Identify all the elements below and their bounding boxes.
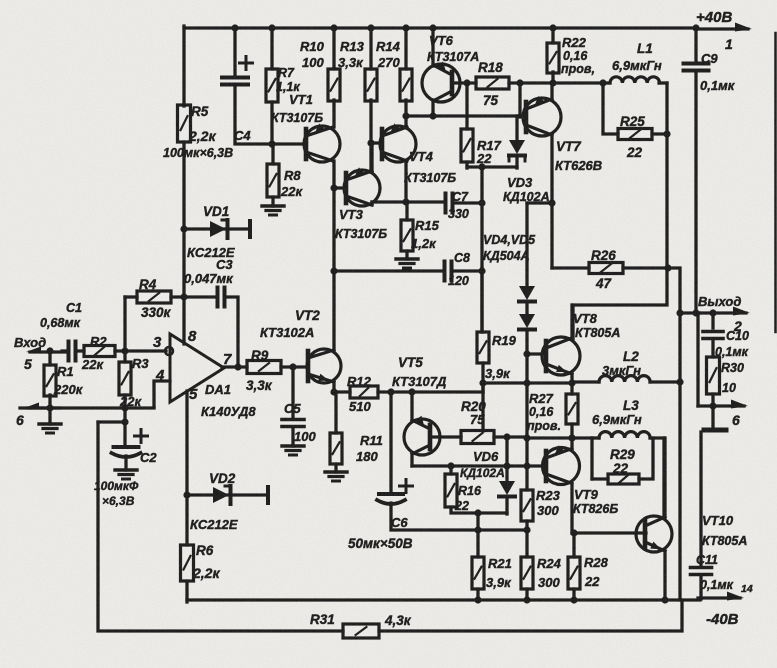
node VT6 collector junction xyxy=(429,112,436,119)
node R25/L1 right junction xyxy=(663,130,670,137)
node feedback junction xyxy=(121,418,128,425)
label pin 8 xyxy=(188,328,197,345)
svg-text:КТ3107Б: КТ3107Б xyxy=(404,171,456,185)
node junction R14 on top rail xyxy=(402,24,409,31)
wire C4 bottom to VT1 base line xyxy=(235,85,306,144)
wire R27 top xyxy=(570,383,573,394)
wire L2 right xyxy=(650,380,680,383)
label R24 value 300 xyxy=(538,575,560,590)
svg-text:22к: 22к xyxy=(280,184,303,199)
resistor R31 xyxy=(343,624,379,638)
svg-text:100мкФ: 100мкФ xyxy=(94,479,139,493)
wire R30 bottom xyxy=(711,394,714,430)
label R8 xyxy=(284,168,301,183)
svg-text:Выход: Выход xyxy=(698,294,741,309)
op-amp DA1 xyxy=(170,334,224,402)
svg-text:3,3к: 3,3к xyxy=(338,55,364,70)
svg-text:VT10: VT10 xyxy=(702,513,734,528)
wire R3 bottom to C2 xyxy=(123,395,126,447)
wire VT7 emitter up xyxy=(550,83,553,100)
wire R25 left drop xyxy=(603,83,618,134)
svg-text:R24: R24 xyxy=(537,556,562,571)
wire bias line to L3 xyxy=(527,436,592,439)
wire op-amp pin 4 xyxy=(154,381,170,407)
wire VT6 collector down xyxy=(431,100,434,116)
ground under R15 xyxy=(396,259,418,268)
label L1 xyxy=(637,41,653,56)
svg-text:300: 300 xyxy=(537,503,559,518)
wire VT7 collector down to R26 xyxy=(550,135,553,268)
label C3 xyxy=(216,257,233,272)
capacitor C8 xyxy=(445,262,452,281)
terminal bar VD1 xyxy=(248,221,252,237)
label R28 xyxy=(584,555,609,570)
label VT2 type КТ3102А xyxy=(260,325,314,340)
svg-text:С4: С4 xyxy=(234,128,251,143)
label VT7 xyxy=(556,139,582,154)
node R16 tap xyxy=(447,462,454,469)
wire R15 bottom xyxy=(405,251,408,259)
diode VD4 xyxy=(519,286,535,302)
svg-text:С2: С2 xyxy=(140,450,157,465)
label R5 value 2,2к xyxy=(188,128,216,144)
resistor R7 xyxy=(266,69,278,102)
svg-text:0,1мк: 0,1мк xyxy=(700,578,734,592)
label R24 xyxy=(537,556,562,571)
label R14 xyxy=(376,39,401,54)
svg-text:VD3: VD3 xyxy=(507,175,533,190)
wire VT5 collector line xyxy=(412,464,527,467)
wire left column top rail to R5 xyxy=(182,26,185,106)
svg-text:VD4,VD5: VD4,VD5 xyxy=(483,233,536,247)
svg-text:С6: С6 xyxy=(391,515,408,530)
label R19 xyxy=(492,333,517,348)
label R20 xyxy=(461,399,486,414)
wire R26 left xyxy=(552,266,589,269)
label C1 value 0,68мк xyxy=(40,316,81,330)
label VT10 type КТ805А xyxy=(702,534,747,548)
node R1 top junction xyxy=(46,347,53,354)
node R21 drop junction xyxy=(474,509,481,516)
node C9 on output line xyxy=(692,309,699,316)
wire R16 top xyxy=(449,466,452,474)
transistor VT1 xyxy=(304,124,340,163)
wire VT10 collector up xyxy=(663,438,666,517)
svg-text:270: 270 xyxy=(377,55,400,70)
label VD1 xyxy=(203,204,229,219)
label R14 value 270 xyxy=(377,55,400,70)
svg-text:КТ3102А: КТ3102А xyxy=(260,325,314,340)
svg-text:1,2к: 1,2к xyxy=(411,236,437,251)
svg-text:R23: R23 xyxy=(536,488,561,503)
label R1 xyxy=(57,364,74,379)
label VD4 VD5 type КД504А xyxy=(483,249,530,263)
svg-text:С9: С9 xyxy=(701,51,718,66)
label R8 value 22к xyxy=(280,184,303,199)
wire C10 to R30 xyxy=(711,339,714,357)
label R26 value 47 xyxy=(595,276,613,291)
svg-text:R7: R7 xyxy=(278,66,295,80)
wire R27 bottom xyxy=(570,424,573,438)
wire L3 left drop xyxy=(590,438,593,479)
label VT1 type КТ3107Б xyxy=(271,111,323,125)
scan artifact right edge xyxy=(774,33,777,332)
wire drop to R20 xyxy=(481,383,484,431)
svg-text:КС212Е: КС212Е xyxy=(187,245,235,260)
wire VT1 collector down to VT3 base and VT2 collector xyxy=(332,161,335,350)
svg-text:КТ3107Б: КТ3107Б xyxy=(271,111,323,125)
label VT3 type КТ3107Б xyxy=(335,227,387,241)
node VD1 anode junction xyxy=(180,225,187,232)
svg-text:47: 47 xyxy=(595,276,613,291)
wire VD3 cathode down xyxy=(515,157,518,168)
label +40В xyxy=(696,9,732,26)
label R27 value пров xyxy=(527,419,561,433)
svg-text:22к: 22к xyxy=(119,394,142,409)
svg-text:330к: 330к xyxy=(141,305,172,320)
wire C10 top xyxy=(711,313,714,328)
wire C9 bottom to output line xyxy=(694,71,697,314)
svg-text:КТ805А: КТ805А xyxy=(575,326,620,340)
transistor VT2 xyxy=(307,349,341,383)
wire R15 top xyxy=(405,202,408,220)
label R9 xyxy=(251,348,269,363)
node junction VT6 emitter on top rail xyxy=(429,24,436,31)
wire C2 bottom xyxy=(124,456,127,470)
wire VT6 emitter up to rail xyxy=(431,28,434,66)
svg-text:2,2к: 2,2к xyxy=(192,565,220,581)
label R17 xyxy=(477,138,502,153)
resistor R20 xyxy=(461,431,494,444)
label C9 value 0,1мк xyxy=(700,78,736,93)
label pin 4 xyxy=(155,367,165,384)
label R11 xyxy=(360,433,383,448)
label R2 value 22к xyxy=(81,357,104,372)
label R17 value 22 xyxy=(476,151,492,166)
label R22 value пров xyxy=(561,62,595,76)
resistor R29 xyxy=(608,474,639,484)
label R13 value 3,3к xyxy=(338,55,364,70)
wire diode chain down to VT9 base column xyxy=(525,383,528,490)
wire VT5 emitter up xyxy=(410,392,413,420)
wire C5 top xyxy=(291,367,294,418)
wire bottom link down to C7 node xyxy=(480,167,483,332)
wire VT3 collector down xyxy=(370,202,373,205)
svg-text:VT5: VT5 xyxy=(398,355,423,370)
wire R24 top xyxy=(525,530,528,557)
label Вход xyxy=(14,335,46,350)
capacitor C5 xyxy=(282,420,304,427)
resistor R14 xyxy=(400,69,412,101)
svg-text:R6: R6 xyxy=(196,543,214,558)
wire R12 right to R20 drop line xyxy=(378,390,483,393)
label R5 xyxy=(191,104,209,119)
label R9 value 3,3к xyxy=(246,378,273,393)
svg-text:КД102А: КД102А xyxy=(460,466,505,480)
node junction R10 on top rail xyxy=(330,24,337,31)
resistor R19 xyxy=(477,332,489,363)
ground under C2 xyxy=(115,470,137,479)
node R28 on rail xyxy=(570,596,577,603)
svg-text:510: 510 xyxy=(349,399,371,414)
svg-text:DA1: DA1 xyxy=(205,382,231,397)
wire VT8 collector up xyxy=(570,305,573,338)
resistor R25 xyxy=(618,129,652,140)
svg-text:R10: R10 xyxy=(300,39,325,54)
wire VD6 cathode xyxy=(505,497,508,514)
svg-text:VD2: VD2 xyxy=(209,471,236,486)
resistor R10 xyxy=(328,69,340,101)
wire C5 bottom xyxy=(291,427,294,446)
svg-text:С8: С8 xyxy=(454,251,470,265)
transistor VT3 xyxy=(344,167,380,206)
svg-text:0,16: 0,16 xyxy=(563,49,588,63)
wire VD2 cathode xyxy=(216,493,266,496)
wire R6 bottom to rail xyxy=(185,581,188,602)
label R22 value 0,16 xyxy=(563,49,588,63)
svg-text:R5: R5 xyxy=(191,104,209,119)
svg-text:КТ826Б: КТ826Б xyxy=(573,502,618,516)
wire common line from C9 column xyxy=(696,313,699,406)
svg-text:R30: R30 xyxy=(721,361,744,375)
resistor R4 xyxy=(137,291,171,303)
wire R21 bottom xyxy=(476,589,479,601)
label VD1 type КС212Е xyxy=(187,245,235,260)
diode VD6 xyxy=(499,481,515,497)
label C8 xyxy=(454,251,470,265)
wire R17 bottom xyxy=(465,162,468,168)
svg-text:R31: R31 xyxy=(310,612,335,627)
svg-text:R1: R1 xyxy=(57,364,74,379)
svg-text:L3: L3 xyxy=(623,398,639,413)
svg-text:С1: С1 xyxy=(66,301,82,315)
label pin 3 xyxy=(153,334,162,351)
svg-text:R29: R29 xyxy=(610,447,635,462)
diode VD2 xyxy=(213,486,231,504)
svg-text:VT3: VT3 xyxy=(339,207,364,222)
node VT8 base tap xyxy=(523,350,530,357)
svg-text:220к: 220к xyxy=(53,382,84,397)
label C7 xyxy=(452,190,469,204)
capacitor C3 xyxy=(218,288,225,307)
node R20 link junction xyxy=(523,434,530,441)
svg-text:0,1мк: 0,1мк xyxy=(700,78,736,93)
svg-text:100: 100 xyxy=(302,55,324,70)
svg-text:5: 5 xyxy=(24,356,32,372)
capacitor C7 xyxy=(446,194,453,213)
label R26 xyxy=(591,248,616,263)
ground under R1 xyxy=(39,424,61,433)
node junction C9 on top rail xyxy=(692,24,699,31)
label R21 xyxy=(488,556,512,571)
wire R14 top xyxy=(404,28,407,69)
label R11 value 180 xyxy=(356,449,378,464)
svg-text:75: 75 xyxy=(483,93,499,108)
svg-text:1: 1 xyxy=(725,36,733,52)
svg-text:14: 14 xyxy=(741,583,753,595)
label R31 value 4,3к xyxy=(384,613,412,628)
resistor R13 xyxy=(365,69,377,101)
wire R13 top xyxy=(369,28,372,69)
wire R13 bottom to VT3 emitter/VT4 base node xyxy=(369,100,372,172)
node VT9 base junction xyxy=(523,462,530,469)
label R7 xyxy=(278,66,295,80)
wire R31 right to rail link xyxy=(379,600,682,631)
svg-text:0,68мк: 0,68мк xyxy=(40,316,81,330)
wire R23 bottom xyxy=(525,521,528,530)
wire common line xyxy=(698,404,712,407)
label L3 value 6,9мкГн xyxy=(592,412,642,427)
label R23 value 300 xyxy=(537,503,559,518)
svg-text:22: 22 xyxy=(584,574,600,589)
terminal +40V arrow pin 1 xyxy=(700,23,752,32)
resistor R6 xyxy=(181,545,194,581)
wire R1 ground stub xyxy=(48,408,51,424)
svg-text:330: 330 xyxy=(448,207,469,221)
node VT1 collector / VT3 base junction xyxy=(330,184,337,191)
svg-text:R15: R15 xyxy=(415,218,440,233)
wire R7 top xyxy=(270,28,273,69)
terminal bar under R30 xyxy=(704,428,726,433)
svg-text:R26: R26 xyxy=(591,248,616,263)
label C10 value 0,1мк xyxy=(715,345,749,359)
label Выход xyxy=(698,294,741,309)
svg-text:R8: R8 xyxy=(284,168,301,183)
label R27 value 0,16 xyxy=(529,405,554,419)
label VD2 type КС212Е xyxy=(190,517,238,532)
svg-text:0,16: 0,16 xyxy=(529,405,554,419)
node VT7 base drop junction xyxy=(516,79,523,86)
label VT9 type КТ826Б xyxy=(573,502,618,516)
label R4 value 330к xyxy=(141,305,172,320)
label R19 value 3,9к xyxy=(485,366,511,381)
label R6 xyxy=(196,543,214,558)
resistor R1 xyxy=(44,365,56,396)
svg-text:R2: R2 xyxy=(90,334,107,349)
node C8/column junction xyxy=(478,267,485,274)
svg-text:120: 120 xyxy=(448,274,469,288)
wire C6 column xyxy=(389,392,392,494)
diode VD1 xyxy=(210,220,228,238)
resistor R15 xyxy=(401,220,413,251)
wire VT4 collector down xyxy=(404,161,407,202)
svg-text:КТ626В: КТ626В xyxy=(555,158,602,173)
wire VT7 base down xyxy=(520,83,526,117)
wire C6 bottom line xyxy=(391,503,527,530)
label R13 xyxy=(340,39,365,54)
wire C11 bottom xyxy=(699,575,702,599)
node C10 tap xyxy=(709,309,716,316)
node junction R7 on top rail xyxy=(268,24,275,31)
diode VD3 xyxy=(509,140,525,161)
capacitor C4 plus sign xyxy=(240,57,253,70)
label R15 xyxy=(415,218,440,233)
capacitor C1 xyxy=(69,342,76,361)
svg-text:6,9мкГн: 6,9мкГн xyxy=(612,58,662,73)
svg-text:3,3к: 3,3к xyxy=(246,378,273,393)
svg-text:R12: R12 xyxy=(347,374,372,389)
ground under C5 xyxy=(282,446,304,455)
svg-text:КТ805А: КТ805А xyxy=(702,534,747,548)
label VT5 xyxy=(398,355,423,370)
wire R14 bottom to VT4 emitter xyxy=(404,100,407,127)
wire VT5 base to R20 xyxy=(430,435,461,438)
wire R17/VD3 bottom link xyxy=(467,165,517,168)
label VT3 xyxy=(339,207,364,222)
label VT8 type КТ805А xyxy=(575,326,620,340)
label R18 value 75 xyxy=(483,93,499,108)
resistor R26 xyxy=(589,263,623,274)
wire C8 right to column xyxy=(452,269,482,272)
node C6 line crossing xyxy=(474,526,481,533)
wire R4 left xyxy=(125,295,137,298)
node R4/C3 junction xyxy=(180,293,187,300)
wire R16 bottom xyxy=(451,507,507,513)
wire R10 top xyxy=(332,28,335,69)
svg-text:R27: R27 xyxy=(529,391,554,406)
wire R2 right to op-amp pin 3 xyxy=(115,349,166,352)
label R10 value 100 xyxy=(302,55,324,70)
label R30 xyxy=(721,361,744,375)
wire R8 top xyxy=(271,144,274,164)
wire VD1 anode xyxy=(184,227,210,230)
wire R4 left column xyxy=(123,297,126,351)
capacitor C4 xyxy=(222,78,248,85)
label VD3 xyxy=(507,175,533,190)
inductor L1 xyxy=(610,77,660,83)
label R25 value 22 xyxy=(626,145,643,160)
svg-text:VT9: VT9 xyxy=(574,487,599,502)
svg-text:VT7: VT7 xyxy=(556,139,582,154)
node C3 on output wire xyxy=(234,363,241,370)
label VT7 type КТ626В xyxy=(555,158,602,173)
svg-text:VD1: VD1 xyxy=(203,204,229,219)
node R3 top junction xyxy=(121,347,128,354)
label R21 value 3,9к xyxy=(486,575,512,590)
svg-text:0,047мк: 0,047мк xyxy=(184,271,234,286)
label R27 xyxy=(529,391,554,406)
label pin 6 lower xyxy=(732,412,740,428)
svg-text:R13: R13 xyxy=(340,39,365,54)
label R28 value 22 xyxy=(584,574,600,589)
wire VT6 base to R18 xyxy=(452,81,476,84)
label R4 xyxy=(139,277,157,292)
node diode chain on output drive line xyxy=(523,379,530,386)
label VT10 xyxy=(702,513,734,528)
wire op-amp pin 5 down to VD2 and R6 xyxy=(185,391,188,545)
wire VT5 collector down xyxy=(410,454,413,466)
label C6 xyxy=(391,515,408,530)
wire VD5 cathode down xyxy=(525,330,528,384)
svg-text:22: 22 xyxy=(454,499,469,513)
capacitor C6 plus sign xyxy=(400,480,413,493)
node C7/column junction xyxy=(478,199,485,206)
label C5 value 100 xyxy=(294,429,316,444)
transistor VT8 xyxy=(542,337,580,375)
node VD2 anode junction xyxy=(183,491,190,498)
label pin 2 xyxy=(733,318,742,334)
svg-text:4,3к: 4,3к xyxy=(384,613,412,628)
wire L3 left stub xyxy=(592,436,599,439)
wire L1 right xyxy=(659,81,667,84)
resistor R16 xyxy=(445,474,457,507)
label L2 xyxy=(623,349,639,364)
wire corner to VD4 chain xyxy=(527,201,552,204)
label VD2 xyxy=(209,471,236,486)
label R22 xyxy=(562,35,587,50)
svg-text:22: 22 xyxy=(612,461,629,476)
wire VT4 base xyxy=(371,141,382,144)
